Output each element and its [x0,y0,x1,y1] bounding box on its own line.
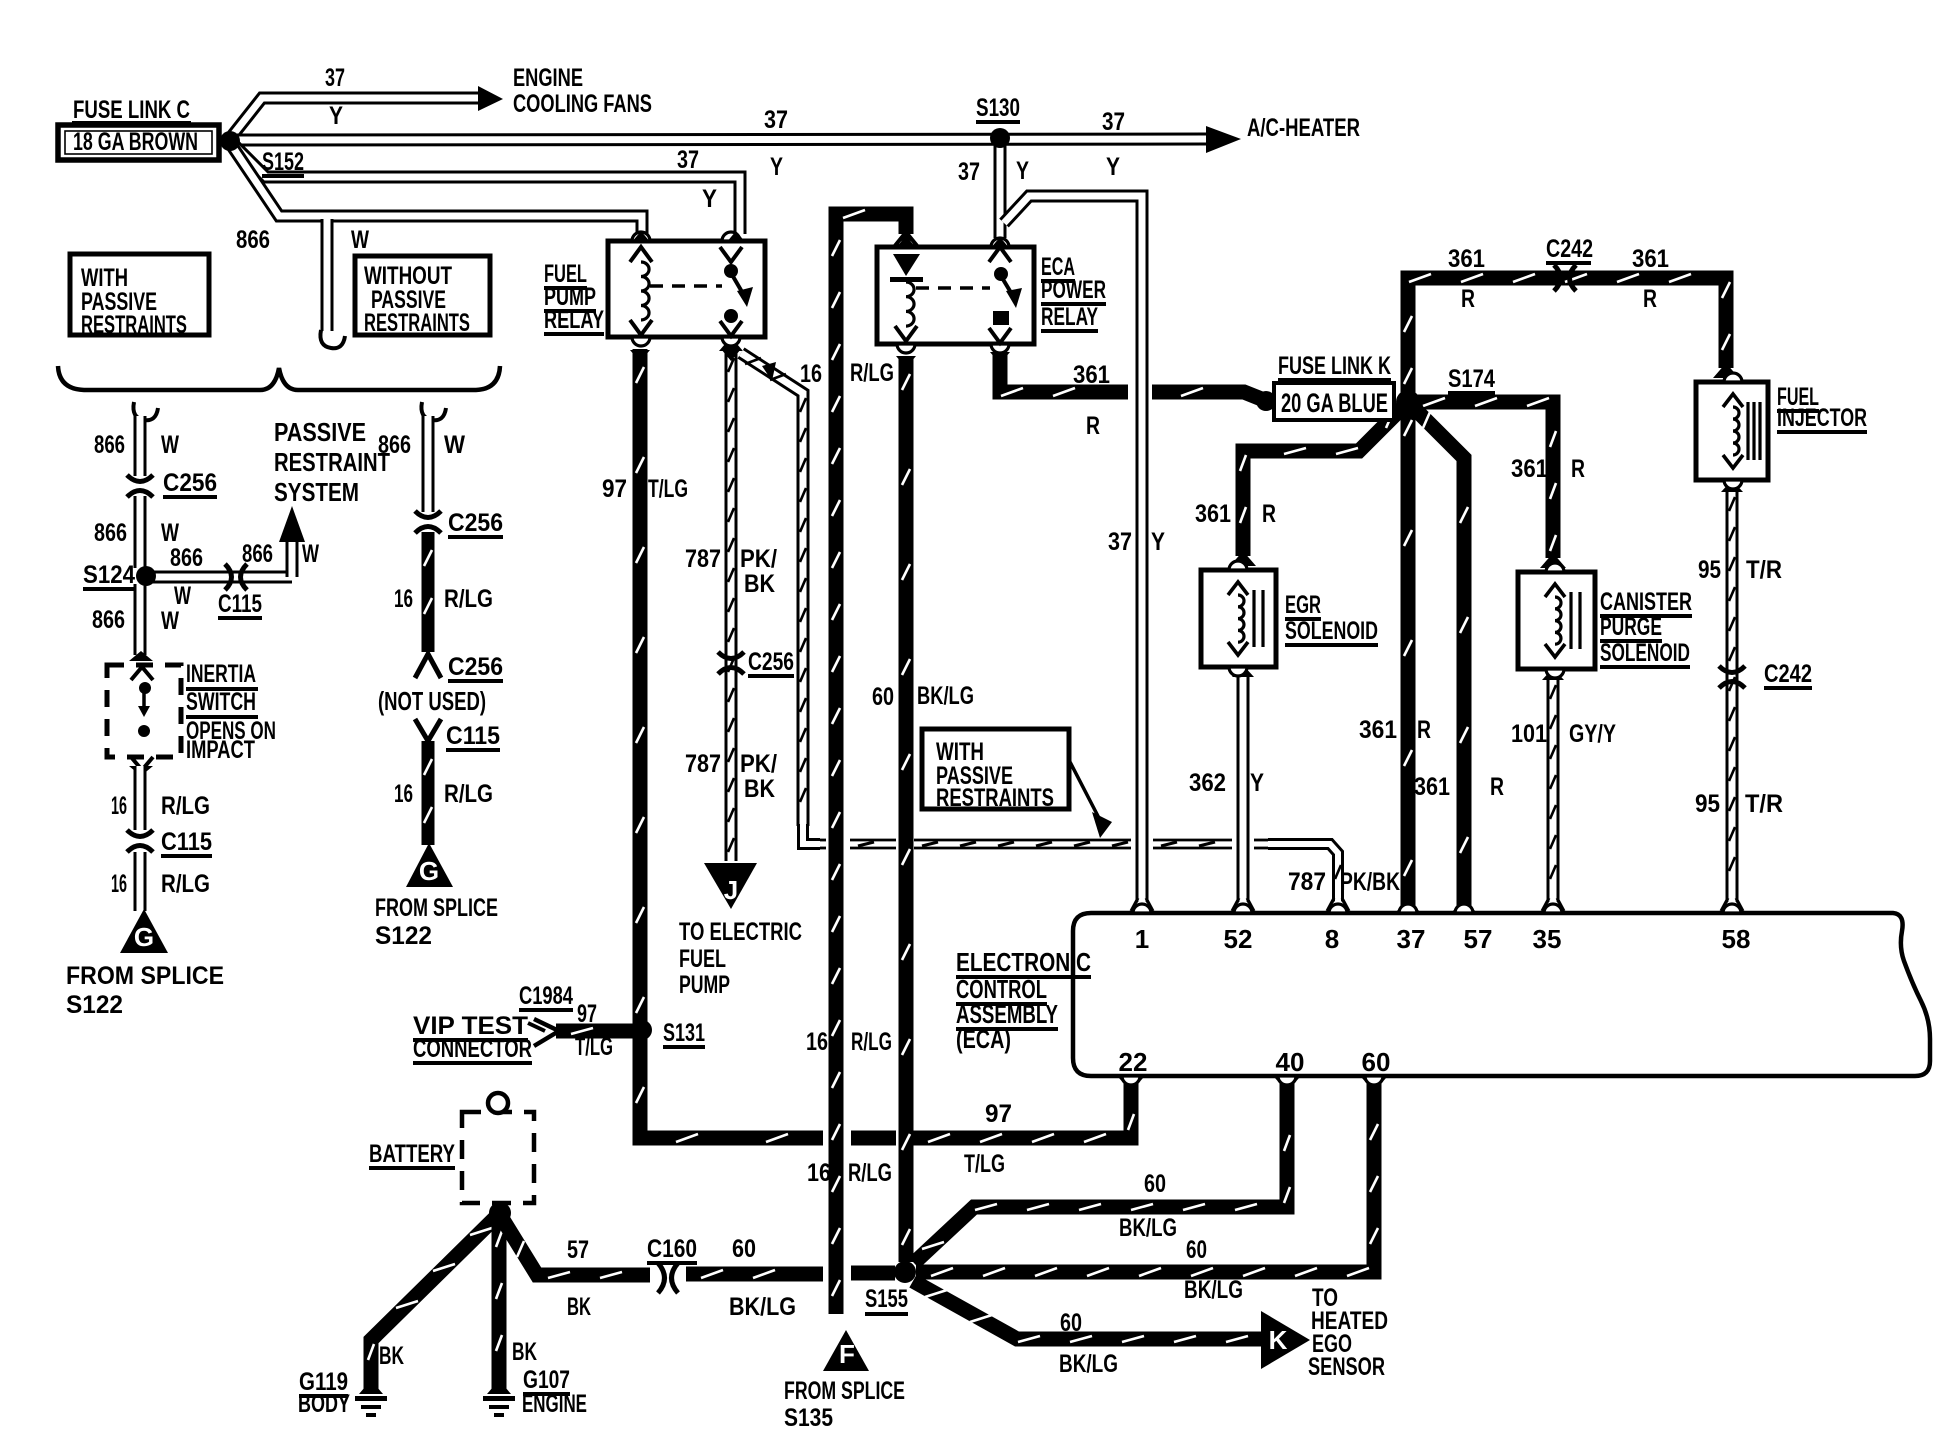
svg-text:TO ELECTRIC: TO ELECTRIC [679,918,802,946]
svg-text:C160: C160 [647,1235,697,1263]
svg-text:G: G [134,922,154,952]
svg-text:16: 16 [807,1159,831,1187]
svg-text:BODY: BODY [298,1390,350,1418]
svg-text:16: 16 [394,780,413,808]
svg-text:(ECA): (ECA) [956,1024,1011,1054]
svg-text:K: K [1269,1325,1288,1355]
svg-text:R/LG: R/LG [848,1159,892,1187]
svg-text:95: 95 [1695,790,1720,818]
svg-text:CANISTER: CANISTER [1600,588,1692,616]
svg-text:BK: BK [744,570,775,598]
svg-text:C1984: C1984 [519,982,573,1010]
svg-text:S152: S152 [262,148,304,176]
svg-text:POWER: POWER [1041,276,1106,304]
svg-text:58: 58 [1722,924,1751,954]
svg-text:G: G [419,856,439,886]
svg-text:361: 361 [1195,500,1231,528]
svg-text:RESTRAINTS: RESTRAINTS [364,309,470,337]
svg-text:37: 37 [958,158,980,186]
svg-text:60: 60 [872,683,894,711]
svg-text:SWITCH: SWITCH [186,688,256,716]
svg-text:866: 866 [94,431,125,459]
svg-text:BK: BK [744,775,775,803]
svg-text:101: 101 [1511,720,1547,748]
svg-text:R: R [1417,716,1431,744]
svg-text:S155: S155 [865,1285,908,1313]
svg-text:FROM SPLICE: FROM SPLICE [375,894,498,922]
svg-text:C256: C256 [448,653,503,681]
svg-text:BK: BK [379,1342,404,1370]
svg-text:16: 16 [806,1028,828,1056]
svg-text:R: R [1086,412,1100,440]
svg-text:W: W [302,540,319,568]
svg-text:FUEL: FUEL [679,945,726,973]
svg-text:SOLENOID: SOLENOID [1285,617,1378,645]
svg-text:866: 866 [94,519,127,547]
svg-text:Y: Y [1151,528,1165,556]
svg-text:ELECTRONIC: ELECTRONIC [956,947,1091,977]
svg-text:37: 37 [325,64,345,92]
svg-text:361: 361 [1073,361,1110,389]
svg-text:97: 97 [602,475,627,503]
svg-text:57: 57 [567,1236,589,1264]
svg-text:52: 52 [1224,924,1253,954]
svg-text:SENSOR: SENSOR [1308,1353,1385,1381]
svg-text:W: W [174,582,191,610]
svg-text:S122: S122 [375,922,432,950]
svg-text:ENGINE: ENGINE [522,1390,587,1418]
svg-text:R/LG: R/LG [444,780,493,808]
svg-text:R/LG: R/LG [444,585,493,613]
svg-text:S131: S131 [663,1019,705,1047]
svg-text:R: R [1571,455,1585,483]
svg-text:97: 97 [577,1000,597,1028]
svg-text:C115: C115 [218,590,262,618]
svg-text:1: 1 [1135,924,1149,954]
svg-text:866: 866 [170,544,203,572]
svg-text:A/C-HEATER: A/C-HEATER [1247,114,1360,142]
svg-text:BK/LG: BK/LG [917,682,974,710]
svg-text:PUMP: PUMP [679,971,730,999]
svg-text:37: 37 [1102,108,1125,136]
svg-text:37: 37 [677,146,699,174]
svg-text:22: 22 [1119,1047,1148,1077]
svg-text:787: 787 [685,545,721,573]
svg-text:20 GA BLUE: 20 GA BLUE [1281,388,1388,418]
svg-text:F: F [839,1339,855,1369]
svg-text:R: R [1461,285,1475,313]
svg-text:FROM SPLICE: FROM SPLICE [66,962,224,990]
svg-text:37: 37 [764,106,788,134]
svg-text:866: 866 [378,431,411,459]
svg-text:C242: C242 [1764,660,1812,688]
svg-text:BK: BK [567,1293,591,1321]
svg-text:787: 787 [685,750,721,778]
svg-text:S135: S135 [784,1404,833,1432]
svg-text:RESTRAINTS: RESTRAINTS [936,784,1054,812]
svg-text:J: J [724,875,738,905]
svg-text:C256: C256 [448,509,503,537]
svg-text:Y: Y [329,102,343,130]
svg-text:95: 95 [1698,556,1721,584]
svg-text:PURGE: PURGE [1600,613,1662,641]
svg-text:EGR: EGR [1285,591,1321,619]
svg-text:C256: C256 [163,469,217,497]
svg-text:Y: Y [1250,769,1264,797]
svg-text:T/LG: T/LG [964,1150,1005,1178]
svg-text:COOLING FANS: COOLING FANS [513,90,652,118]
svg-text:60: 60 [1144,1170,1166,1198]
svg-text:866: 866 [236,226,270,254]
svg-text:W: W [161,519,179,547]
svg-text:FROM SPLICE: FROM SPLICE [784,1377,905,1405]
svg-text:57: 57 [1464,924,1493,954]
svg-text:16: 16 [111,870,127,898]
svg-text:C115: C115 [161,828,212,856]
svg-text:18 GA BROWN: 18 GA BROWN [73,128,198,156]
svg-text:16: 16 [800,360,822,388]
svg-text:BK/LG: BK/LG [1119,1214,1177,1242]
svg-text:R: R [1490,773,1504,801]
svg-text:FUSE LINK K: FUSE LINK K [1278,352,1391,380]
svg-text:R/LG: R/LG [161,870,210,898]
svg-text:BK/LG: BK/LG [1184,1276,1243,1304]
svg-text:R/LG: R/LG [850,359,894,387]
svg-text:R: R [1643,285,1657,313]
svg-text:(NOT USED): (NOT USED) [378,686,486,716]
svg-text:97: 97 [985,1100,1012,1128]
svg-text:BK/LG: BK/LG [729,1293,796,1321]
svg-text:R/LG: R/LG [851,1028,892,1056]
svg-text:362: 362 [1189,769,1226,797]
svg-text:RESTRAINT: RESTRAINT [274,447,390,477]
svg-text:Y: Y [770,153,783,181]
svg-text:FUSE LINK C: FUSE LINK C [73,96,190,124]
svg-text:BK/LG: BK/LG [1059,1350,1118,1378]
svg-text:C256: C256 [748,648,794,676]
svg-text:IMPACT: IMPACT [186,736,255,764]
svg-text:361: 361 [1414,773,1450,801]
svg-text:CONNECTOR: CONNECTOR [413,1035,532,1063]
svg-text:SYSTEM: SYSTEM [274,477,359,507]
svg-text:60: 60 [1186,1236,1207,1264]
svg-text:8: 8 [1325,924,1339,954]
svg-text:PK/BK: PK/BK [1340,868,1400,896]
svg-text:866: 866 [242,540,273,568]
svg-text:60: 60 [1362,1047,1391,1077]
svg-text:W: W [444,431,465,459]
svg-text:35: 35 [1533,924,1562,954]
svg-text:T/R: T/R [1745,790,1783,818]
svg-text:40: 40 [1276,1047,1305,1077]
svg-text:S124: S124 [83,561,135,589]
svg-text:W: W [161,607,179,635]
svg-text:361: 361 [1448,245,1485,273]
svg-text:RELAY: RELAY [1041,303,1098,331]
svg-text:GY/Y: GY/Y [1569,720,1616,748]
svg-text:ENGINE: ENGINE [513,64,583,92]
svg-text:T/R: T/R [1746,556,1782,584]
svg-text:SOLENOID: SOLENOID [1600,639,1690,667]
svg-text:PK/: PK/ [740,750,777,778]
svg-text:S174: S174 [1448,365,1495,393]
svg-text:37: 37 [1108,528,1132,556]
svg-text:16: 16 [111,792,127,820]
svg-text:T/LG: T/LG [575,1033,613,1061]
svg-text:C242: C242 [1546,235,1593,263]
svg-text:361: 361 [1632,245,1669,273]
svg-text:S122: S122 [66,991,123,1019]
svg-text:361: 361 [1359,716,1397,744]
svg-text:60: 60 [1060,1309,1082,1337]
svg-text:INJECTOR: INJECTOR [1777,404,1867,432]
svg-text:T/LG: T/LG [648,475,688,503]
svg-text:16: 16 [394,585,413,613]
svg-text:C115: C115 [446,722,500,750]
svg-text:R: R [1262,500,1276,528]
svg-text:BK: BK [512,1338,537,1366]
svg-text:787: 787 [1288,868,1326,896]
svg-text:BATTERY: BATTERY [369,1140,455,1168]
svg-text:866: 866 [92,606,125,634]
svg-text:PASSIVE: PASSIVE [274,417,366,447]
svg-text:RELAY: RELAY [544,306,604,334]
svg-text:W: W [351,226,369,254]
svg-text:Y: Y [702,185,717,213]
svg-text:S130: S130 [976,94,1020,122]
svg-text:W: W [161,431,179,459]
svg-text:RESTRAINTS: RESTRAINTS [81,311,187,339]
svg-text:PK/: PK/ [740,545,777,573]
svg-text:R/LG: R/LG [161,792,210,820]
svg-text:60: 60 [732,1235,756,1263]
svg-text:361: 361 [1511,455,1548,483]
svg-text:Y: Y [1016,157,1029,185]
svg-text:37: 37 [1397,924,1426,954]
svg-text:INERTIA: INERTIA [186,660,256,688]
svg-text:Y: Y [1106,153,1120,181]
